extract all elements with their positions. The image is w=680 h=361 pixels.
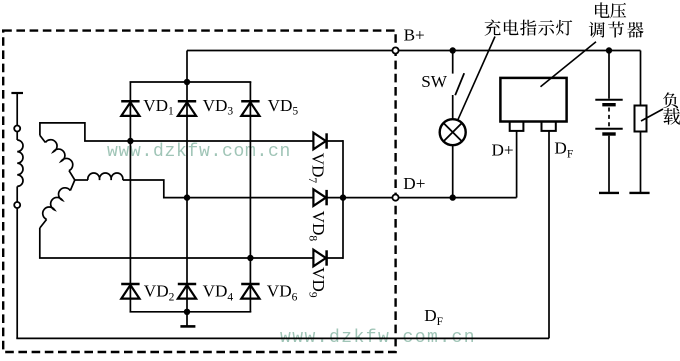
regulator tab DF — [542, 122, 556, 131]
wire phase U lead — [40, 123, 314, 141]
wire bottom bus (-) — [130, 311, 252, 313]
wire DF return — [16, 337, 549, 339]
label 负载 (load) — [663, 92, 678, 108]
wire B+ bus — [187, 50, 641, 52]
wire — [452, 145, 454, 197]
svg-text:SW: SW — [421, 72, 448, 91]
wire rectifier column 2 — [186, 51, 188, 312]
battery dashed middle — [608, 108, 610, 128]
battery ground bar — [599, 192, 619, 194]
node bottom bus / column 2 — [184, 309, 190, 315]
wire regulator DF — [548, 131, 550, 339]
load ground bar — [629, 192, 649, 194]
stator phase U winding (upper-left coil) — [69, 171, 75, 180]
wire — [16, 132, 18, 140]
wire — [452, 95, 454, 119]
diode VD8 — [313, 189, 326, 206]
node phase W / column 3 — [247, 255, 253, 261]
wire — [16, 93, 18, 125]
wire VD8 cathode to bus — [327, 197, 343, 199]
node top bus / column 2 — [184, 79, 190, 85]
wire D+ — [343, 197, 517, 199]
node lamp to D+ — [450, 194, 456, 200]
charge indicator lamp — [440, 119, 466, 145]
wire phase V lead — [123, 180, 314, 198]
wire — [452, 51, 454, 74]
wire battery top — [608, 51, 610, 99]
diode VD6 — [241, 284, 259, 299]
diode VD4 — [178, 284, 196, 299]
wire load top — [640, 51, 642, 106]
node D+ tap — [340, 194, 346, 200]
wire regulator D+ — [516, 131, 518, 198]
diode VD2 — [121, 284, 139, 299]
brush/slip-ring upper — [14, 126, 20, 132]
rotor field winding coil — [17, 140, 23, 186]
wire load bottom — [640, 132, 642, 193]
diode VD1 — [121, 101, 139, 116]
svg-text:D+: D+ — [492, 141, 514, 160]
load resistor — [635, 106, 647, 132]
wire top bus (+) — [130, 81, 252, 83]
switch SW blade — [455, 73, 464, 95]
regulator tab D+ — [510, 122, 524, 131]
svg-text:B+: B+ — [404, 25, 425, 44]
terminal D+ — [392, 195, 398, 201]
leader line to lamp — [458, 37, 495, 120]
voltage regulator box — [500, 78, 566, 122]
node phase V / column 2 — [184, 194, 190, 200]
wire rectifier column 1 — [129, 82, 131, 312]
node battery branch — [606, 47, 612, 53]
wire rotor to DF return — [16, 208, 18, 338]
node phase U / column 1 — [127, 138, 133, 144]
svg-text:D+: D+ — [403, 174, 425, 193]
alternator dashed enclosure — [3, 31, 395, 352]
diode VD9 — [313, 250, 326, 267]
battery negative plate 1 — [602, 103, 615, 106]
diode VD5 — [241, 101, 259, 116]
battery positive plate 1 — [595, 99, 622, 101]
node lamp branch — [450, 47, 456, 53]
wire phase W lead — [40, 228, 314, 258]
ground — [186, 312, 188, 326]
wire rectifier column 3 — [249, 82, 251, 312]
stator phase W winding (lower-left coil) — [70, 180, 75, 191]
wire VD9 cathode to bus — [327, 257, 343, 259]
battery negative plate 2 — [602, 132, 615, 135]
stator phase V winding (horizontal coil) — [75, 179, 88, 181]
diode VD3 — [178, 101, 196, 116]
leader line to regulator — [541, 42, 597, 87]
wire battery bottom — [608, 136, 610, 192]
brush/slip-ring lower — [14, 202, 20, 208]
wire VD7 cathode to bus — [327, 140, 343, 142]
label 电压调节器 (voltage regulator) — [595, 2, 610, 18]
diode VD7 — [313, 133, 326, 150]
battery positive plate 2 — [595, 128, 622, 130]
wire field-diode cathode bus — [342, 140, 344, 259]
wire — [16, 186, 18, 202]
leader line to load — [641, 109, 663, 121]
svg-text:www.dzkfw.com.cn: www.dzkfw.com.cn — [107, 142, 291, 162]
terminal B+ — [392, 47, 398, 53]
rotor field winding top terminal bar — [11, 92, 23, 94]
label 充电指示灯 (charge indicator lamp) — [485, 20, 501, 36]
